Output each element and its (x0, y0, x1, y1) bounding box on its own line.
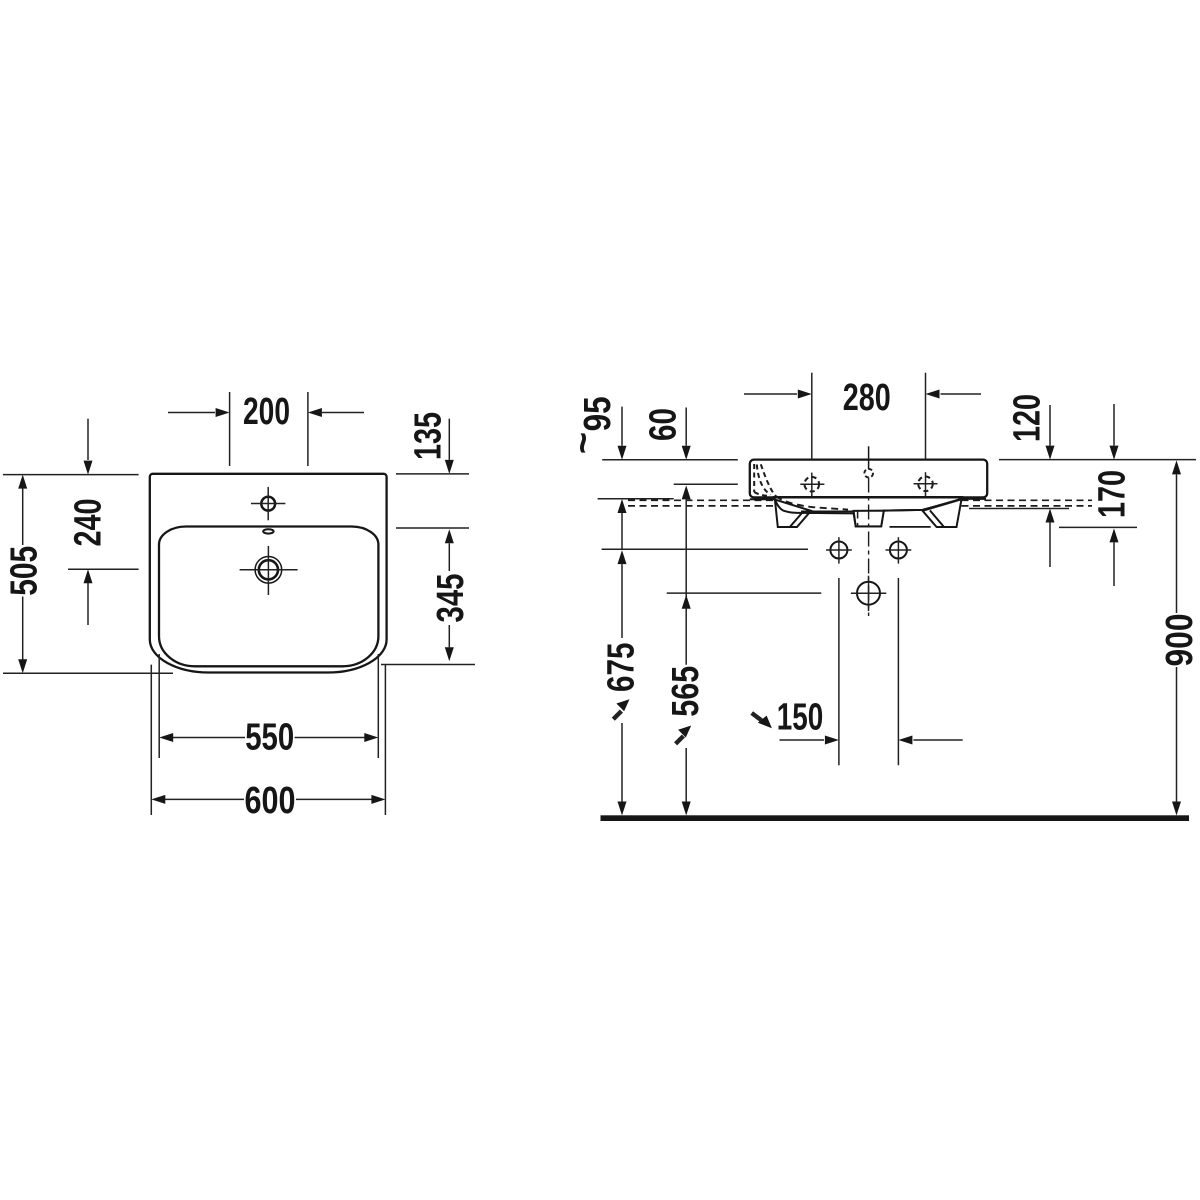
svg-text:135: 135 (408, 412, 450, 460)
svg-text:600: 600 (245, 780, 296, 822)
svg-text:120: 120 (1007, 394, 1049, 442)
svg-text:150: 150 (777, 697, 824, 739)
svg-text:900: 900 (1159, 614, 1200, 667)
svg-text:240: 240 (68, 499, 110, 547)
svg-text:550: 550 (245, 716, 294, 758)
svg-text:95: 95 (577, 396, 619, 431)
svg-text:170: 170 (1092, 470, 1134, 518)
svg-text:280: 280 (843, 377, 891, 419)
svg-text:60: 60 (643, 408, 685, 441)
svg-text:565: 565 (665, 666, 707, 717)
svg-text:~: ~ (563, 432, 605, 454)
svg-text:675: 675 (601, 643, 643, 693)
svg-text:200: 200 (243, 391, 290, 433)
svg-text:505: 505 (4, 546, 46, 596)
svg-text:345: 345 (430, 574, 472, 623)
